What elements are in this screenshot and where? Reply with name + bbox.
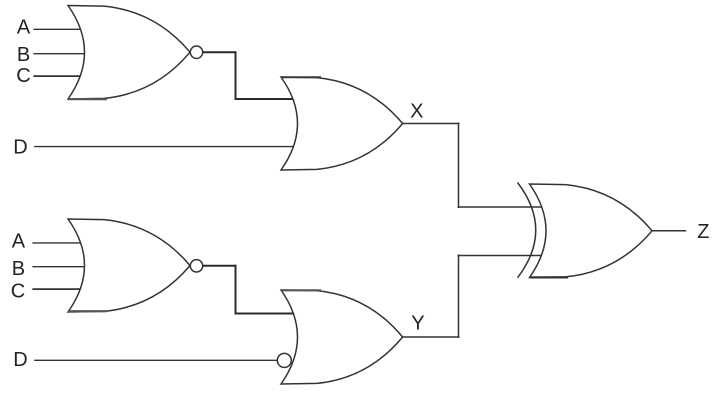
OR gate U4 top edge segment: [281, 289, 321, 291]
NOR gate U1 output bubble: [190, 46, 202, 58]
wire U1 to U2 (vertical drop): [235, 51, 237, 100]
OR gate U2 top edge segment: [281, 76, 321, 78]
wire input B to U1: [33, 53, 90, 55]
NOR gate U1 body: [68, 6, 190, 100]
wire U4 output (node Y) horizontal: [403, 336, 460, 338]
wire U3 to U4 (horizontal into U4): [235, 313, 299, 315]
wire input D to U2: [34, 146, 296, 148]
wire node X vertical down to U5: [458, 123, 460, 209]
wire input A to U1: [33, 28, 88, 30]
svg-text:D: D: [13, 136, 27, 158]
svg-text:Y: Y: [411, 313, 424, 335]
wire U3 output to U4 input (horizontal from bubble): [203, 265, 237, 267]
XOR gate U5 bottom edge segment: [530, 276, 569, 278]
svg-text:A: A: [17, 16, 31, 38]
wire U2 output (node X) horizontal: [403, 123, 460, 125]
wire into U5 lower input: [458, 255, 548, 257]
input bubble on U4 D input: [277, 353, 291, 367]
wire U3 to U4 (vertical drop): [235, 265, 237, 315]
wire U5 output (node Z): [652, 230, 686, 232]
wire into U5 upper input: [458, 206, 548, 208]
svg-text:C: C: [16, 65, 30, 87]
svg-text:Z: Z: [697, 221, 709, 243]
XOR gate U5 body: [530, 184, 653, 278]
svg-text:D: D: [13, 349, 27, 371]
NOR gate U1 bottom edge segment: [68, 98, 107, 100]
NOR gate U3 output bubble: [190, 260, 202, 272]
wire input D to U4 inverting input: [34, 359, 277, 361]
wire input A to U3: [32, 242, 88, 244]
wire U1 to U2 (horizontal into U2): [235, 98, 299, 100]
wire input B to U3: [32, 266, 90, 268]
svg-text:B: B: [12, 258, 25, 280]
svg-text:C: C: [11, 280, 25, 302]
OR gate U4 body: [281, 290, 403, 384]
wire U1 output to U2 input (horizontal from bubble): [203, 51, 237, 53]
wire input C to U1: [33, 75, 88, 77]
NOR gate U3 bottom edge segment: [68, 310, 107, 312]
wire input C to U3: [32, 288, 88, 290]
svg-text:B: B: [17, 44, 30, 66]
svg-text:A: A: [12, 230, 26, 252]
svg-text:X: X: [410, 100, 423, 122]
wire node Y vertical up to U5: [458, 255, 460, 339]
OR gate U2 body: [281, 77, 403, 170]
XOR gate U5 outer input arc: [518, 183, 536, 278]
NOR gate U3 body: [68, 219, 190, 312]
